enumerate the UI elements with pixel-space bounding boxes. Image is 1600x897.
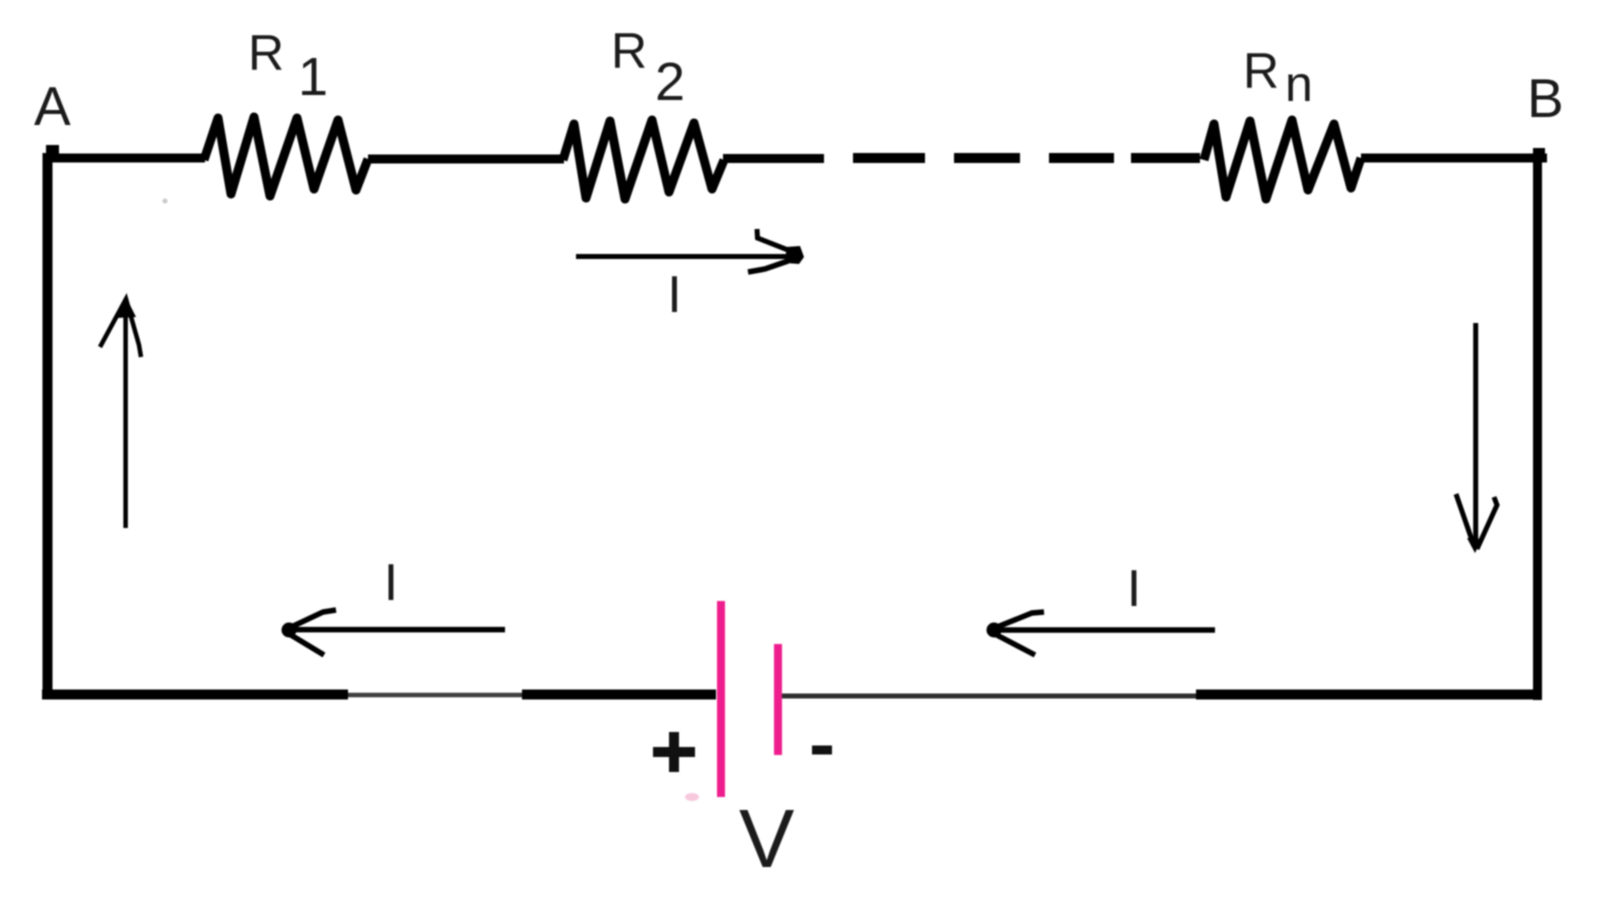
svg-text:1: 1 xyxy=(298,47,328,107)
svg-text:R: R xyxy=(611,23,647,79)
svg-text:A: A xyxy=(34,75,71,137)
svg-text:R: R xyxy=(1243,43,1279,99)
svg-text:I: I xyxy=(1127,560,1141,618)
svg-text:V: V xyxy=(739,792,794,885)
svg-text:2: 2 xyxy=(655,52,685,112)
svg-text:R: R xyxy=(248,25,284,81)
svg-text:B: B xyxy=(1527,67,1564,129)
svg-text:I: I xyxy=(384,554,398,612)
svg-text:n: n xyxy=(1285,56,1313,112)
svg-text:I: I xyxy=(667,266,681,324)
